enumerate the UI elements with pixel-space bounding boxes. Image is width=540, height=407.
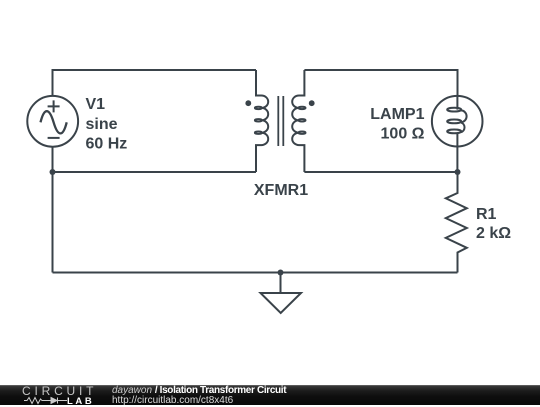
LAMP1 value labels [370, 106, 424, 142]
lamp LAMP1 [432, 96, 483, 172]
svg-text:V1: V1 [86, 96, 106, 113]
svg-text:R1: R1 [476, 206, 497, 223]
transformer XFMR1 secondary winding [292, 70, 305, 172]
node junction left [50, 169, 56, 175]
wire top right [304, 70, 457, 96]
svg-text:2 kΩ: 2 kΩ [476, 225, 511, 242]
svg-text:60 Hz: 60 Hz [86, 136, 128, 153]
svg-text:100 Ω: 100 Ω [381, 125, 425, 142]
node ground junction [278, 270, 284, 276]
wire junction to primary [53, 171, 257, 173]
svg-text:LAMP1: LAMP1 [370, 106, 424, 123]
resistor R1 [446, 172, 467, 273]
R1 value labels [476, 206, 511, 242]
footer bar [0, 385, 540, 405]
V1 value labels [86, 96, 128, 153]
node junction right [455, 169, 461, 175]
CircuitLab logo wordmark LAB [67, 397, 94, 406]
CircuitLab logo resistor-diode glyph [24, 396, 68, 405]
wire left vertical [52, 172, 54, 273]
CircuitLab logo wordmark CIRCUIT [22, 386, 102, 397]
svg-text:sine: sine [86, 116, 118, 133]
transformer core [278, 96, 283, 146]
phase dot primary [245, 100, 251, 106]
wire bottom [53, 272, 458, 274]
transformer XFMR1 primary winding [255, 70, 268, 172]
voltage source V1 [27, 96, 78, 147]
attribution text [112, 386, 286, 405]
svg-text:XFMR1: XFMR1 [254, 182, 308, 199]
ground [261, 273, 302, 314]
wire secondary to node [304, 171, 457, 173]
wire top left [53, 70, 257, 96]
wire V1 bottom lead [52, 147, 54, 172]
phase dot secondary [309, 100, 315, 106]
